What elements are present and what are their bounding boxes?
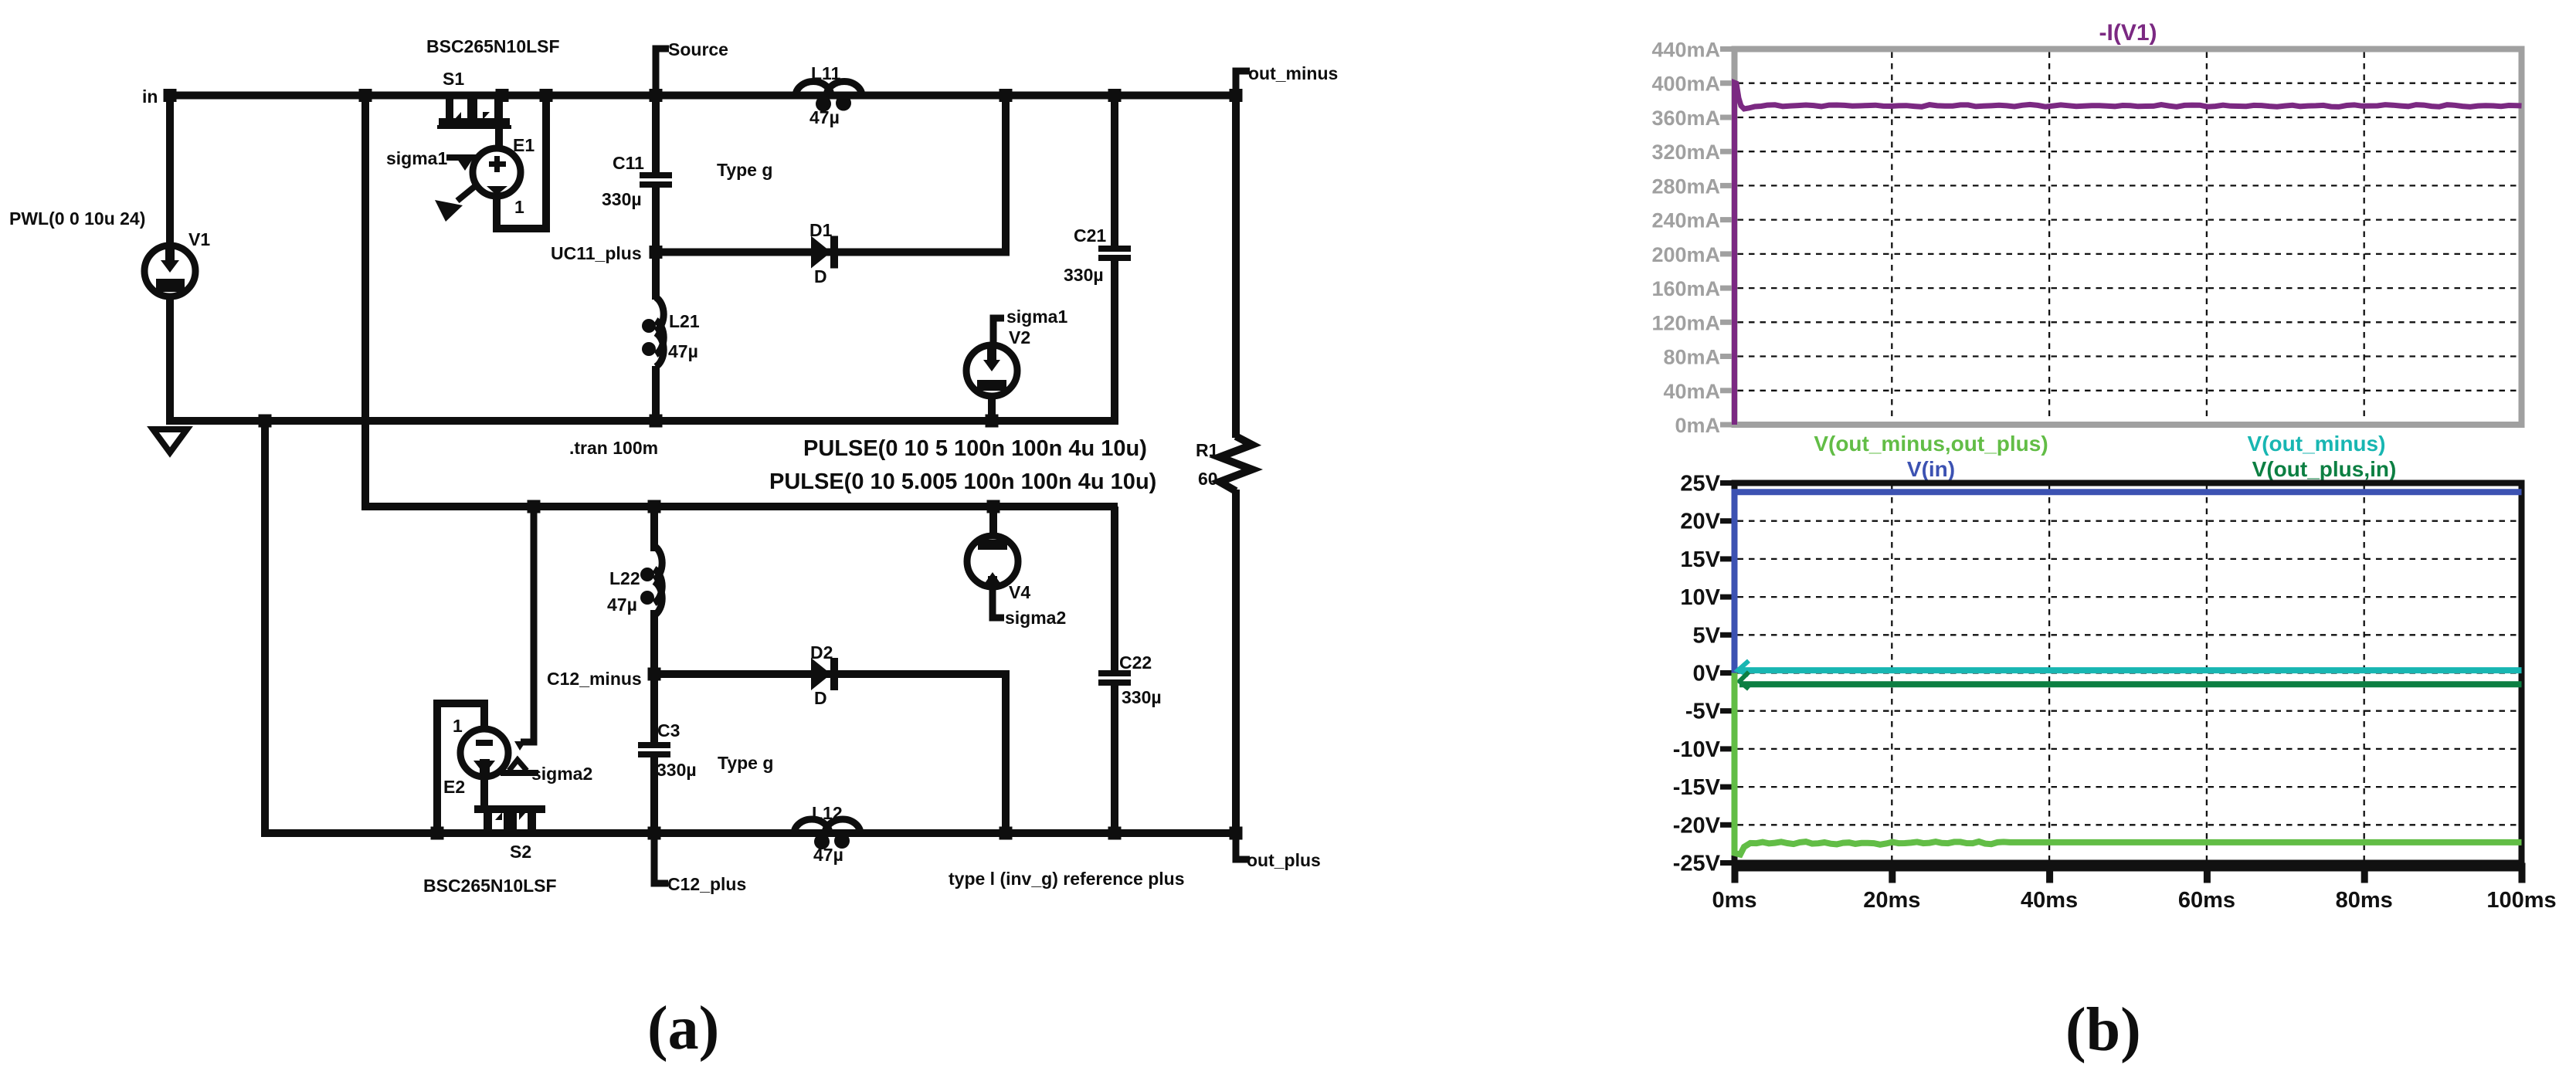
svg-text:47µ: 47µ [668,341,698,361]
svg-text:10V: 10V [1680,585,1720,610]
svg-text:V1: V1 [188,229,210,249]
svg-text:330µ: 330µ [1122,687,1162,707]
svg-text:25V: 25V [1680,472,1720,496]
capacitor C11 plates [640,172,672,178]
inductor L12 symbol [794,819,830,834]
wire second rail [361,503,1118,510]
net C12_plus tick [654,833,668,883]
wire C3 wire top [650,674,658,744]
dependent source E1 [473,148,521,196]
plot2 x axis base line [1732,863,2525,872]
wire V2 to mid rail [988,395,996,421]
junction top rail / Source vertical [650,89,663,102]
junction bottom rail / D2 branch [1000,827,1013,840]
svg-text:sigma2: sigma2 [531,764,592,784]
svg-text:sigma1: sigma1 [1006,307,1067,327]
svg-text:330µ: 330µ [602,189,642,209]
svg-text:L21: L21 [669,311,700,331]
wire L21 to mid rail [652,366,660,421]
wire C12_minus row [650,670,1010,678]
svg-text:0mA: 0mA [1675,414,1720,437]
wire V4 stub top [989,507,997,538]
junction top rail / second vertical [359,89,372,102]
junction top rail / S1 gate loop [496,89,509,102]
junction top rail / in corner [164,89,177,102]
svg-text:in: in [142,86,158,107]
E2 output loop wire [437,703,484,833]
capacitor C21 plates [1098,246,1131,252]
wire left vertical in to V1 [166,96,174,249]
net out_minus tick [1236,71,1250,96]
svg-text:0ms: 0ms [1712,888,1756,913]
wire second rail to L22 [650,507,658,551]
svg-text:400mA: 400mA [1651,73,1720,96]
svg-text:0V: 0V [1693,662,1721,686]
svg-text:C11: C11 [613,153,644,173]
svg-text:L22: L22 [609,568,640,588]
svg-text:330µ: 330µ [657,760,697,780]
wire bottom rail [261,829,1240,837]
svg-text:20V: 20V [1680,510,1720,534]
svg-text:C22: C22 [1119,652,1152,673]
inductor L22 symbol [654,546,662,580]
junction top rail / out vertical [1230,89,1243,102]
wire S1 gate to E1 [495,126,503,151]
wire C3 wire bottom [650,757,658,833]
svg-text:60: 60 [1198,469,1218,489]
svg-text:V(out_minus,out_plus): V(out_minus,out_plus) [1814,432,2048,456]
svg-text:-20V: -20V [1673,813,1721,838]
svg-text:80mA: 80mA [1663,346,1720,369]
wire C21 vertical top [1111,96,1118,248]
svg-text:out_plus: out_plus [1247,850,1321,870]
svg-text:C3: C3 [657,720,680,740]
wire mid rail [166,417,1118,425]
svg-text:D: D [814,688,827,708]
svg-text:440mA: 440mA [1651,39,1720,62]
svg-text:R1: R1 [1196,440,1219,460]
svg-text:47µ: 47µ [607,595,637,615]
svg-text:40mA: 40mA [1663,380,1720,403]
svg-text:D: D [814,266,827,286]
V2 circle [966,345,1017,396]
svg-text:out_minus: out_minus [1248,63,1338,83]
diode D2 symbol [811,658,831,690]
svg-text:E1: E1 [513,135,535,155]
svg-text:V4: V4 [1009,582,1030,602]
plot1 gridlines [1738,53,2519,422]
wire UC11_plus row [652,249,1010,256]
wire L22 to C12_minus row [650,610,658,674]
diode D1 symbol [811,236,831,269]
plot1 frame [1735,49,2522,425]
svg-text:S2: S2 [510,842,531,862]
wire vertical D1 row to top rail [1002,96,1010,252]
wire out vertical lower [1232,490,1240,833]
net out_plus tick [1236,833,1250,859]
svg-text:PULSE(0 10 5 100n 100n 4u 10u): PULSE(0 10 5 100n 100n 4u 10u) [803,436,1147,461]
wire second vertical from top rail [361,96,369,507]
junction top rail / D1 branch [1000,89,1013,102]
svg-text:100ms: 100ms [2486,888,2556,913]
E1 control wire sigma1 [446,154,476,161]
junction top rail / E1 loop [540,89,553,102]
svg-text:sigma1: sigma1 [386,148,447,168]
svg-text:PWL(0 0 10u 24): PWL(0 0 10u 24) [9,208,145,229]
plot1 y axis labels [1651,39,1733,438]
junction bottom rail / out vertical [1230,827,1243,840]
svg-text:BSC265N10LSF: BSC265N10LSF [423,876,557,896]
dependent source E2 [460,729,508,777]
svg-text:.tran 100m: .tran 100m [569,438,658,458]
svg-text:(a): (a) [647,995,719,1062]
svg-text:60ms: 60ms [2178,888,2235,913]
plot2 trace V(out_minus,out_plus) light green [1735,673,2522,855]
svg-text:V(out_plus,in): V(out_plus,in) [2252,457,2397,481]
capacitor C22 plates [1098,670,1131,676]
wire vertical mid rail to bottom rail [261,421,269,833]
plot2 y axis labels [1673,472,1733,876]
voltage source V4 [967,536,1018,588]
svg-text:UC11_plus: UC11_plus [551,243,642,263]
svg-text:D2: D2 [810,642,833,662]
svg-text:E2: E2 [443,777,465,797]
svg-text:type l (inv_g) reference plus: type l (inv_g) reference plus [949,869,1184,889]
svg-text:120mA: 120mA [1651,311,1720,334]
svg-text:80ms: 80ms [2336,888,2393,913]
svg-text:D1: D1 [809,220,833,240]
V4 circle [967,536,1018,587]
svg-text:BSC265N10LSF: BSC265N10LSF [426,36,560,56]
resistor R1 [1220,436,1252,491]
junction C12_minus junction [648,668,661,681]
plot2 trace V(out_minus) cyan [1738,661,1749,675]
net Source tick [656,49,669,96]
junction UC11_plus junction [650,246,663,259]
plot2 trace V(out_plus,in) dark green [1739,672,1749,689]
svg-text:1: 1 [453,716,463,736]
E2 control wire sigma2 [509,760,527,771]
svg-text:(b): (b) [2065,996,2141,1064]
svg-text:-15V: -15V [1673,775,1721,800]
svg-text:C12_plus: C12_plus [667,874,746,894]
svg-text:5V: 5V [1693,623,1721,648]
wire top rail in to out_minus [166,92,1240,100]
svg-text:PULSE(0 10 5.005 100n 100n 4u: PULSE(0 10 5.005 100n 100n 4u 10u) [769,469,1156,494]
svg-text:15V: 15V [1680,547,1720,572]
svg-text:V(in): V(in) [1907,457,1955,481]
svg-text:sigma2: sigma2 [1005,608,1066,628]
plot1 trace -I(V1) [1735,83,2522,425]
V1 circle [144,246,195,297]
junction bottom rail / C3 [648,827,661,840]
svg-text:280mA: 280mA [1651,175,1720,198]
wire sigma2 vertical [521,507,534,742]
wire C21 vertical bottom [1111,261,1118,421]
svg-text:-10V: -10V [1673,737,1721,762]
inductor L11 symbol [796,82,831,97]
capacitor C3 plates [638,742,670,748]
junction bottom rail / C22 [1108,827,1122,840]
svg-text:360mA: 360mA [1651,107,1720,130]
wire left vertical V1 to mid rail [166,293,174,421]
wire C22 vertical bottom [1111,686,1118,833]
plot2 x axis ticks and labels [1712,863,2556,913]
transistor S2 symbol [474,774,545,830]
svg-text:240mA: 240mA [1651,209,1720,232]
inductor L21 symbol [656,297,664,331]
svg-text:L11: L11 [811,63,841,83]
wire C22 vertical top [1111,507,1118,672]
svg-text:1: 1 [514,197,524,217]
svg-text:47µ: 47µ [813,845,843,865]
svg-text:330µ: 330µ [1064,265,1104,285]
junction mid rail / drop to bottom [259,415,272,428]
svg-text:L12: L12 [812,803,843,823]
svg-text:47µ: 47µ [809,107,840,127]
svg-text:40ms: 40ms [2021,888,2078,913]
svg-text:V2: V2 [1009,327,1030,347]
E1 circle [473,148,521,196]
svg-text:Source: Source [668,39,728,59]
E2 circle [460,729,508,777]
wire out vertical upper [1232,96,1240,439]
junction second rail / sigma2 drop [528,500,541,513]
E1 output loop wire [497,96,546,229]
voltage source V1 [144,245,195,297]
junction second rail / V4 [987,500,1000,513]
plot2 gridlines [1738,486,2519,860]
svg-text:320mA: 320mA [1651,141,1720,164]
svg-text:-5V: -5V [1685,700,1721,724]
svg-text:-25V: -25V [1673,852,1721,876]
ground symbol [153,429,187,452]
svg-text:20ms: 20ms [1863,888,1920,913]
wire C11 to UC11_plus row [652,188,660,300]
transistor S1 symbol [437,96,511,130]
wire Source vertical to C11 [652,96,660,175]
wire vertical D2 row to bottom rail [1002,674,1010,833]
junction mid rail / V2 [986,415,999,428]
svg-text:Type g: Type g [718,753,773,773]
voltage source V2 [993,318,1004,346]
svg-text:200mA: 200mA [1651,243,1720,266]
plot2 frame [1735,483,2522,863]
svg-text:S1: S1 [443,69,464,89]
svg-text:-I(V1): -I(V1) [2099,20,2157,46]
svg-text:Type g: Type g [717,160,772,180]
E1 control arrow [457,187,474,201]
svg-text:160mA: 160mA [1651,277,1720,300]
plot2 trace V(in) blue [1735,492,2522,673]
junction top rail / C21 branch [1108,89,1122,102]
junction bottom rail / E2 loop [431,827,444,840]
svg-text:C12_minus: C12_minus [547,669,642,689]
svg-text:V(out_minus): V(out_minus) [2248,432,2386,456]
V4 sigma2 tick [993,585,1004,618]
junction second rail / L22 branch [648,500,661,513]
svg-text:C21: C21 [1074,225,1106,246]
junction mid rail / L21 [650,415,663,428]
